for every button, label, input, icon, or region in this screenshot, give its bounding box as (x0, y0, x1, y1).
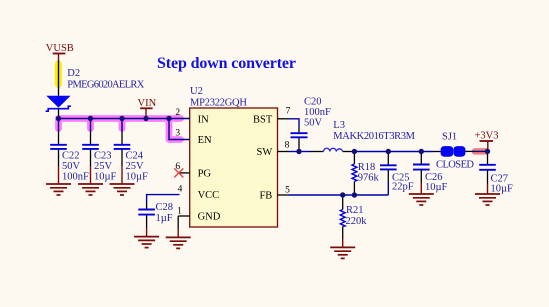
svg-text:IN: IN (198, 114, 209, 125)
svg-text:25V: 25V (126, 161, 145, 172)
svg-text:BST: BST (253, 114, 273, 125)
svg-text:7: 7 (286, 107, 291, 117)
svg-text:10µF: 10µF (425, 182, 448, 193)
svg-text:VCC: VCC (198, 190, 220, 201)
svg-text:10µF: 10µF (491, 184, 514, 195)
svg-text:5: 5 (285, 185, 290, 195)
svg-text:R21: R21 (346, 205, 364, 216)
svg-text:25V: 25V (94, 161, 113, 172)
svg-text:+3V3: +3V3 (475, 130, 499, 141)
svg-text:50V: 50V (62, 161, 81, 172)
svg-text:PMEG6020AELRX: PMEG6020AELRX (67, 80, 144, 91)
svg-text:C28: C28 (156, 202, 174, 213)
svg-text:976k: 976k (358, 172, 380, 183)
svg-text:1: 1 (177, 207, 182, 217)
svg-text:1µF: 1µF (156, 213, 173, 224)
svg-text:D2: D2 (67, 68, 80, 79)
svg-text:C20: C20 (304, 97, 322, 108)
svg-text:10µF: 10µF (126, 172, 149, 183)
svg-text:VUSB: VUSB (46, 43, 74, 54)
svg-text:SW: SW (257, 147, 273, 158)
svg-text:C24: C24 (126, 151, 144, 162)
svg-text:Step down converter: Step down converter (157, 55, 296, 72)
svg-text:50V: 50V (304, 117, 323, 128)
svg-text:PG: PG (198, 168, 212, 179)
svg-text:10µF: 10µF (94, 172, 117, 183)
svg-text:U2: U2 (190, 86, 203, 97)
svg-text:C22: C22 (62, 151, 80, 162)
svg-text:220k: 220k (346, 216, 368, 227)
svg-text:3: 3 (175, 129, 180, 139)
svg-text:FB: FB (259, 190, 272, 201)
svg-text:EN: EN (198, 135, 212, 146)
svg-text:GND: GND (198, 212, 221, 223)
svg-text:MAKK2016T3R3M: MAKK2016T3R3M (333, 131, 415, 142)
svg-text:2: 2 (175, 108, 180, 118)
svg-text:L3: L3 (333, 120, 345, 131)
svg-text:8: 8 (285, 141, 290, 151)
svg-text:CLOSED: CLOSED (436, 160, 474, 171)
svg-text:C23: C23 (94, 151, 112, 162)
svg-text:SJ1: SJ1 (442, 132, 457, 143)
svg-text:4: 4 (178, 185, 183, 195)
svg-text:100nF: 100nF (62, 172, 89, 183)
svg-text:22pF: 22pF (392, 182, 414, 193)
svg-text:VIN: VIN (138, 98, 157, 109)
svg-text:MP2322GQH: MP2322GQH (190, 98, 247, 109)
svg-text:6: 6 (175, 162, 180, 172)
